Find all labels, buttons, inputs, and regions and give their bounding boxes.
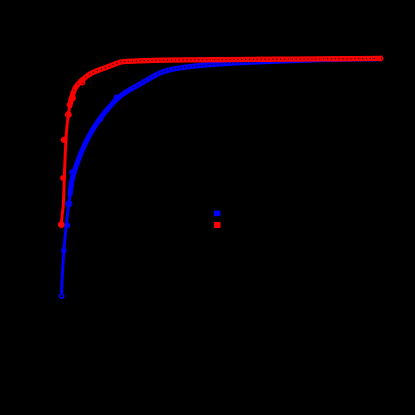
red curve steep segment: [61, 101, 71, 226]
red data-point markers: [58, 80, 85, 228]
red curve end marker: [378, 56, 382, 60]
red chain marker holes: [73, 58, 378, 91]
legend blue square: [214, 211, 221, 217]
red curve flat segment: [70, 58, 379, 105]
blue curve flat segment: [70, 59, 379, 195]
blue data-point markers: [59, 95, 118, 298]
legend red square: [214, 222, 220, 228]
blue chain marker holes: [133, 58, 376, 88]
blue curve steep segment: [62, 190, 71, 292]
